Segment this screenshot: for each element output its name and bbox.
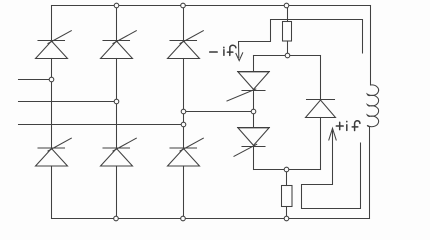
- thyristor V7 (down): [227, 72, 270, 102]
- wire: branch bottom tie: [254, 169, 321, 171]
- wire: de-excitation branch top lead: [253, 56, 255, 72]
- wire: de-excitation branch bottom lead: [253, 147, 255, 170]
- junction: top bus / R1: [284, 3, 289, 8]
- junction: V7-V8 midpoint: [251, 109, 256, 114]
- wire: diode branch bottom lead: [320, 118, 322, 170]
- wire: column 2 bottom: [116, 166, 118, 219]
- wire: column 3 top lead: [183, 6, 185, 41]
- wire: phase A input: [19, 79, 52, 81]
- wire: column 3 middle: [183, 59, 185, 149]
- junction: phase A / column 1: [49, 77, 54, 82]
- thyristor V8 (down): [234, 128, 270, 157]
- junction: bottom bus / R2: [284, 216, 289, 221]
- label -if: [210, 45, 236, 55]
- junction: phase C / column 3: [181, 122, 186, 127]
- junction: branch bottom / R2: [284, 167, 289, 172]
- thyristor V3: [101, 31, 137, 59]
- diode V9 (up): [306, 100, 336, 118]
- junction: bottom bus / column 3: [181, 216, 186, 221]
- junction: bottom bus / column 2: [114, 216, 119, 221]
- junction: column 3 tap: [181, 109, 186, 114]
- wire: column 2 top lead: [116, 6, 118, 41]
- wire: diode branch top lead: [320, 56, 322, 100]
- thyristor V6: [101, 138, 137, 166]
- wire: column 1 middle: [51, 59, 53, 149]
- wire: right vertical from top bus to field winding: [370, 6, 372, 86]
- thyristor V2: [168, 138, 204, 166]
- wire: column 2 middle: [116, 59, 118, 149]
- wire: bottom DC bus: [52, 218, 370, 220]
- wire: column 3 tap to de-excitation branch: [184, 111, 254, 113]
- thyristor V5: [168, 31, 204, 59]
- junction: top bus / column 2: [114, 3, 119, 8]
- thyristor V1: [36, 31, 72, 59]
- wire: column 1 bottom: [51, 166, 53, 219]
- wire: column 3 bottom: [183, 166, 185, 219]
- resistor R2: [282, 186, 293, 207]
- wire: column 1 top lead: [51, 6, 53, 41]
- junction: phase B / column 2: [114, 99, 119, 104]
- wire: field winding bottom to bottom bus: [369, 127, 371, 219]
- wire: branch top tie: [254, 55, 321, 57]
- wire: top DC bus: [52, 5, 371, 7]
- wire: resistor R2 bottom lead: [286, 207, 288, 219]
- arrow: +if current path: [302, 128, 361, 208]
- junction: R1 bottom node: [285, 53, 290, 58]
- label +if: [336, 121, 360, 131]
- wire: resistor R1 bottom lead: [287, 41, 289, 56]
- arrow: -if current path: [236, 20, 363, 61]
- wire: resistor R2 top lead: [286, 170, 288, 186]
- wire: phase C input: [19, 124, 184, 126]
- wire: between V7 and V8: [253, 91, 255, 128]
- thyristor V4: [36, 138, 72, 166]
- junction: top bus / column 3: [181, 3, 186, 8]
- wire: phase B input: [19, 101, 117, 103]
- resistor R1: [283, 22, 292, 42]
- inductor Lf (field winding): [367, 85, 378, 127]
- wire: resistor R1 top lead from bus: [287, 6, 289, 22]
